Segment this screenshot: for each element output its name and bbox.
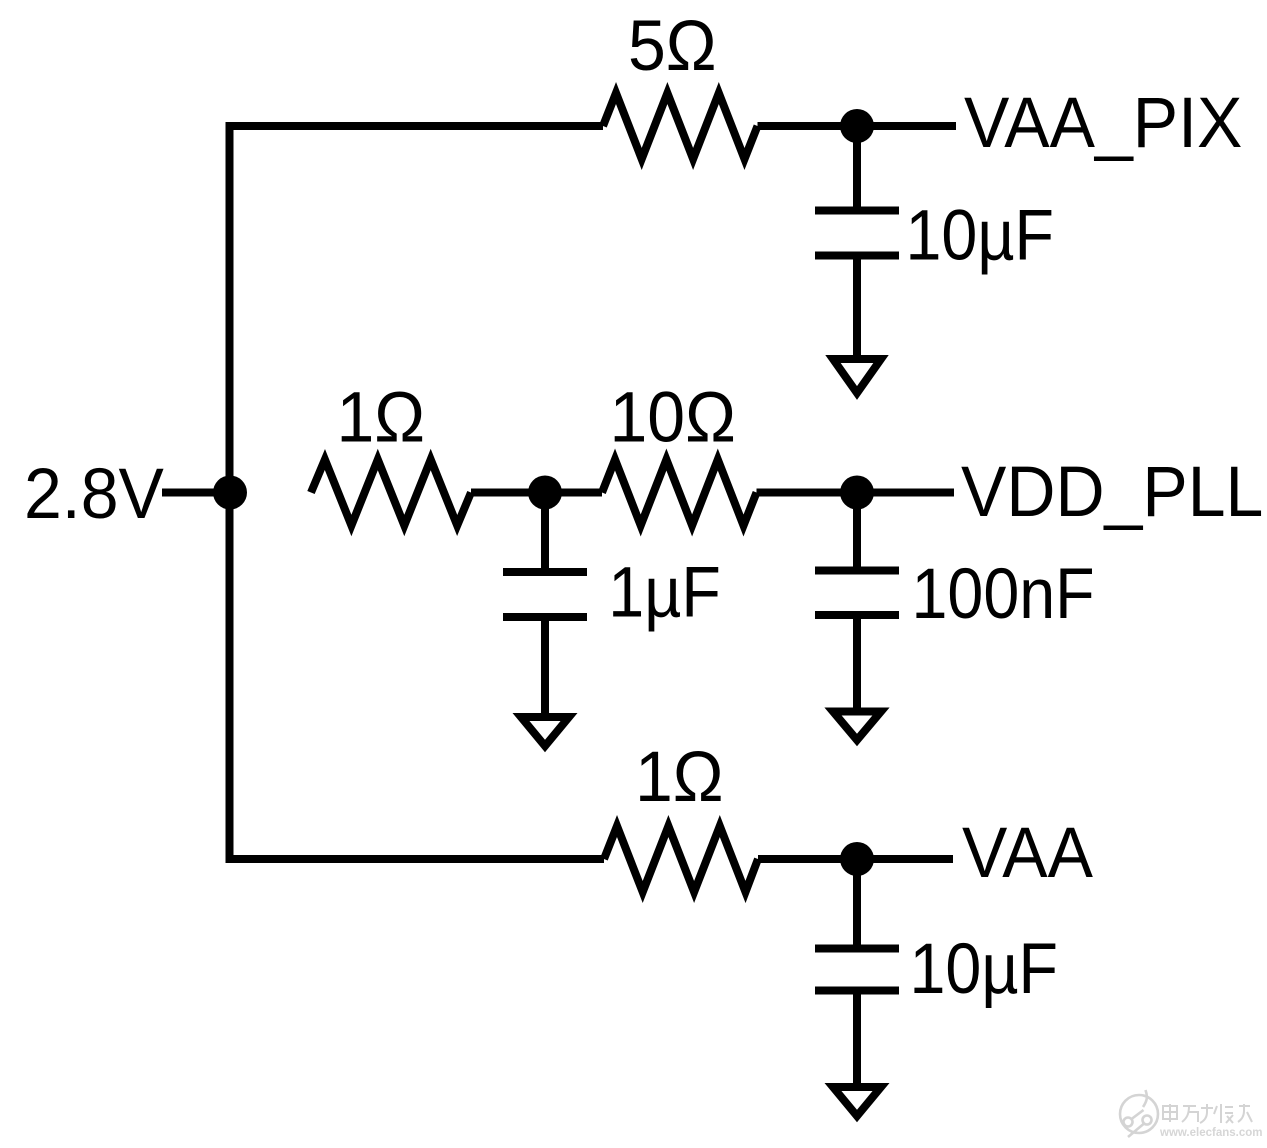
capacitor 100nF (plate 2) xyxy=(815,611,899,619)
wire: VAA node down to capacitor 10uF (bottom) xyxy=(853,859,861,949)
resistor 1Ohm (middle branch) xyxy=(311,460,471,526)
node: VAA junction dot xyxy=(840,842,874,876)
svg-text:10µF: 10µF xyxy=(906,197,1055,275)
capacitor 1uF (plate 1) xyxy=(503,568,587,576)
label 1Ohm (bottom) xyxy=(635,736,724,816)
wire: 10Ohm to VDD_PLL xyxy=(757,489,955,497)
svg-text:5Ω: 5Ω xyxy=(628,6,717,86)
wire: 2.8V input stub xyxy=(162,489,230,497)
svg-text:10µF: 10µF xyxy=(910,930,1059,1008)
label 10uF (top) xyxy=(906,197,1055,275)
wire: capacitor 100nF to ground xyxy=(853,615,861,712)
svg-text:1Ω: 1Ω xyxy=(635,736,724,816)
resistor 1Ohm (bottom branch) xyxy=(604,826,758,892)
wire: VAA_PIX node down to capacitor 10uF xyxy=(853,126,861,211)
capacitor 10uF (top, plate 2) xyxy=(815,252,899,260)
node: VDD_PLL junction dot xyxy=(840,476,874,510)
label 5Ohm xyxy=(628,6,717,86)
wire: capacitor to ground (bottom) xyxy=(853,991,861,1088)
svg-text:10Ω: 10Ω xyxy=(610,377,736,457)
resistor 10Ohm (middle branch) xyxy=(602,460,757,526)
capacitor 1uF (plate 2) xyxy=(503,613,587,621)
ground (top, VAA_PIX branch) xyxy=(833,359,881,393)
svg-text:100nF: 100nF xyxy=(912,555,1095,633)
watermark logo circle xyxy=(1120,1090,1158,1137)
label 1uF xyxy=(608,554,721,632)
label net VAA_PIX xyxy=(964,83,1242,163)
label 2.8V source xyxy=(24,454,164,534)
svg-text:VDD_PLL: VDD_PLL xyxy=(961,452,1263,532)
label net VDD_PLL xyxy=(961,452,1263,532)
node: mid junction dot (1uF tap) xyxy=(528,476,562,510)
label net VAA xyxy=(962,813,1094,893)
label 100nF xyxy=(912,555,1095,633)
ground (middle-left, 1uF branch) xyxy=(521,717,569,746)
svg-text:VAA_PIX: VAA_PIX xyxy=(964,83,1242,163)
wire: 5Ohm to VAA_PIX xyxy=(758,122,957,130)
svg-text:VAA: VAA xyxy=(962,813,1094,893)
label 10Ohm xyxy=(610,377,736,457)
capacitor 10uF (bottom, plate 1) xyxy=(815,945,899,953)
wire: main bus (top branch, left vertical rail, bottom branch) xyxy=(230,126,605,859)
node: junction dot at 2.8V bus xyxy=(213,476,247,510)
watermark text elecfans chinese xyxy=(1163,1104,1252,1123)
wire: 1Ohm to mid node xyxy=(471,489,602,497)
wire: mid node down to capacitor 1uF xyxy=(541,493,549,574)
capacitor 10uF (top, plate 1) xyxy=(815,207,899,215)
svg-text:2.8V: 2.8V xyxy=(24,454,164,534)
label 10uF (bottom) xyxy=(910,930,1059,1008)
resistor 5Ohm (top branch) xyxy=(603,93,758,159)
wire: capacitor to ground (top) xyxy=(853,256,861,360)
node: VAA_PIX junction dot xyxy=(840,109,874,143)
wire: capacitor 1uF to ground xyxy=(541,617,549,717)
svg-text:1Ω: 1Ω xyxy=(337,377,426,457)
wire: 1Ohm to VAA xyxy=(758,855,953,863)
svg-text:www.elecfans.com: www.elecfans.com xyxy=(1159,1127,1262,1139)
label 1Ohm (middle) xyxy=(337,377,426,457)
ground (middle-right, 100nF branch) xyxy=(833,712,881,741)
capacitor 10uF (bottom, plate 2) xyxy=(815,987,899,995)
wire: VDD_PLL node down to capacitor 100nF xyxy=(853,493,861,572)
capacitor 100nF (plate 1) xyxy=(815,567,899,575)
ground (bottom, VAA branch) xyxy=(833,1087,881,1116)
svg-text:1µF: 1µF xyxy=(608,554,721,632)
